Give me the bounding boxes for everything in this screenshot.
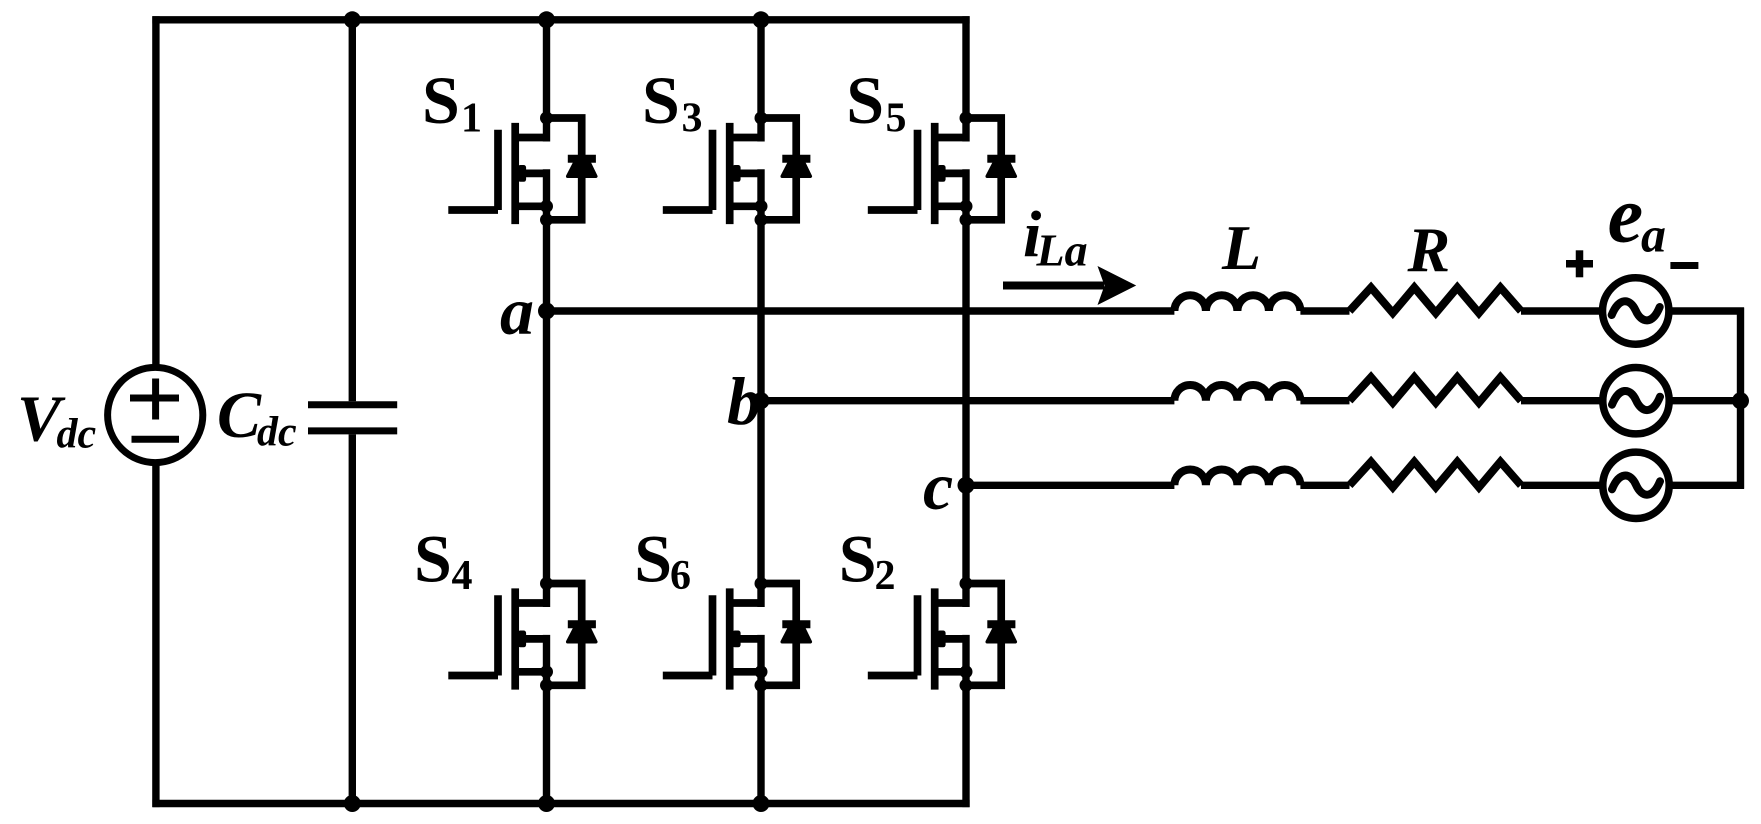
wire: right return bus bbox=[1737, 308, 1744, 489]
AC source phase b bbox=[1603, 368, 1669, 434]
transistor S3 (MOSFET with body diode) bbox=[663, 112, 811, 227]
svg-text:L: L bbox=[1221, 212, 1261, 283]
junction dot top bus / capacitor bbox=[344, 11, 361, 28]
wire: bottom DC bus bbox=[152, 800, 969, 807]
junction dot top bus / leg b bbox=[753, 11, 770, 28]
svg-text:5: 5 bbox=[886, 96, 907, 142]
wire: phase a from node a bbox=[547, 307, 1175, 314]
wire: leg b lower bbox=[757, 635, 764, 807]
wire: phase b between L and R bbox=[1300, 397, 1349, 404]
junction dot bottom bus / capacitor bbox=[344, 795, 361, 812]
svg-text:C: C bbox=[217, 379, 262, 452]
wire: phase c between L and R bbox=[1300, 482, 1349, 489]
inductor L phase a bbox=[1174, 295, 1300, 311]
svg-text:a: a bbox=[1641, 207, 1666, 263]
minus sign near ea bbox=[1670, 262, 1698, 269]
resistor R phase c bbox=[1350, 462, 1522, 488]
node a junction dot bbox=[538, 303, 555, 320]
svg-text:3: 3 bbox=[682, 96, 703, 142]
wire: phase a from R to source bbox=[1521, 307, 1603, 314]
junction dot right bus / phase b bbox=[1732, 392, 1749, 409]
svg-text:La: La bbox=[1036, 225, 1088, 276]
wire: leg c upper bbox=[962, 16, 969, 141]
svg-text:6: 6 bbox=[670, 553, 691, 599]
svg-text:dc: dc bbox=[257, 410, 297, 456]
wire: phase a between L and R bbox=[1300, 307, 1349, 314]
transistor S1 (MOSFET with body diode) bbox=[448, 112, 596, 227]
plus sign near ea bbox=[1566, 250, 1593, 277]
wire: phase c source to right bus bbox=[1669, 482, 1744, 489]
resistor R phase b bbox=[1350, 377, 1522, 403]
wire: phase a source to right bus bbox=[1669, 307, 1744, 314]
svg-text:c: c bbox=[923, 448, 953, 524]
svg-text:4: 4 bbox=[452, 553, 473, 599]
Vdc plus plate bbox=[130, 379, 179, 420]
svg-text:S: S bbox=[846, 62, 884, 138]
inductor L phase c bbox=[1174, 470, 1300, 486]
wire: left rail upper bbox=[152, 16, 159, 367]
wire: top DC bus bbox=[152, 16, 969, 23]
wire: capacitor branch upper bbox=[349, 16, 356, 401]
junction dot top bus / leg a bbox=[538, 11, 555, 28]
wire: leg a upper bbox=[543, 16, 550, 141]
transistor S5 (MOSFET with body diode) bbox=[868, 112, 1016, 227]
wire: left rail lower bbox=[152, 462, 159, 807]
svg-text:S: S bbox=[839, 521, 877, 597]
svg-text:a: a bbox=[500, 273, 534, 349]
current arrow iLa bbox=[1003, 266, 1136, 305]
wire: phase b from R to source bbox=[1521, 397, 1603, 404]
svg-text:S: S bbox=[422, 62, 460, 138]
transistor S6 (MOSFET with body diode) bbox=[663, 577, 811, 692]
svg-text:S: S bbox=[414, 521, 452, 597]
Vdc minus plate bbox=[132, 436, 180, 443]
wire: capacitor branch lower bbox=[349, 434, 356, 807]
wire: leg b upper bbox=[757, 16, 764, 141]
wire: phase c from R to source bbox=[1521, 482, 1603, 489]
svg-text:S: S bbox=[642, 62, 680, 138]
svg-text:S: S bbox=[634, 521, 672, 597]
wire: phase b source to right bus bbox=[1669, 397, 1744, 404]
wire: leg c lower bbox=[962, 635, 969, 807]
wire: leg a middle bbox=[543, 169, 550, 607]
junction dot bottom bus / leg a bbox=[538, 795, 555, 812]
capacitor Cdc plates bbox=[308, 405, 397, 431]
wire: leg b middle bbox=[757, 169, 764, 607]
AC source ea phase a bbox=[1603, 278, 1669, 344]
AC source phase c bbox=[1603, 452, 1669, 518]
inductor L phase b bbox=[1174, 385, 1300, 401]
node c junction dot bbox=[958, 477, 975, 494]
svg-text:R: R bbox=[1407, 214, 1451, 285]
junction dot bottom bus / leg b bbox=[753, 795, 770, 812]
wire: phase c from node c bbox=[966, 482, 1174, 489]
svg-text:2: 2 bbox=[875, 553, 896, 599]
wire: leg c middle bbox=[962, 169, 969, 607]
transistor S4 (MOSFET with body diode) bbox=[448, 577, 596, 692]
svg-text:b: b bbox=[727, 363, 761, 439]
svg-text:e: e bbox=[1608, 171, 1644, 259]
resistor R phase a bbox=[1350, 288, 1522, 314]
svg-text:1: 1 bbox=[461, 96, 482, 142]
wire: phase b from node b bbox=[761, 397, 1174, 404]
transistor S2 (MOSFET with body diode) bbox=[868, 577, 1016, 692]
DC source Vdc circle bbox=[108, 367, 203, 462]
node b junction dot bbox=[753, 392, 770, 409]
wire: leg a lower bbox=[543, 635, 550, 807]
svg-text:dc: dc bbox=[57, 412, 97, 458]
